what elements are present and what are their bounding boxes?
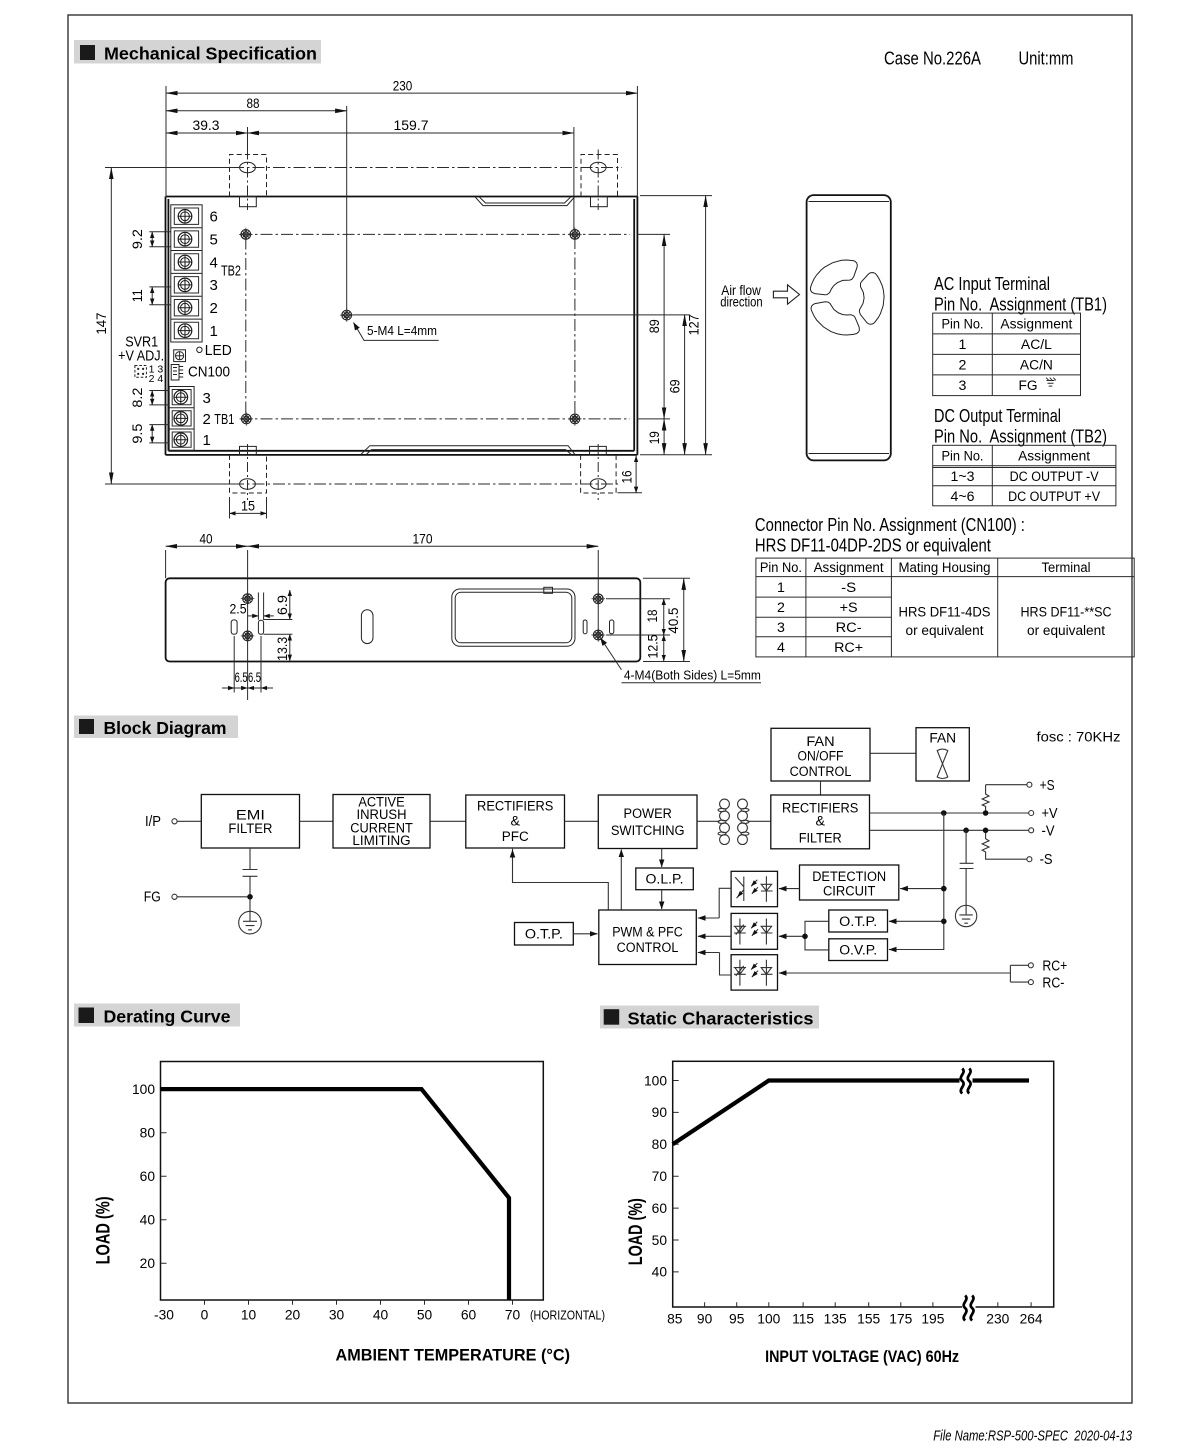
svg-text:2 4: 2 4: [149, 373, 164, 385]
svg-text:1: 1: [203, 432, 211, 449]
svg-text:230: 230: [986, 1312, 1009, 1327]
svg-text:70: 70: [505, 1308, 521, 1323]
svg-text:&: &: [510, 813, 520, 829]
svg-text:39.3: 39.3: [193, 117, 220, 133]
vent window: [452, 589, 575, 646]
svg-text:RC-: RC-: [1042, 974, 1064, 991]
section header: Static Characteristics: [600, 1006, 819, 1029]
svg-text:FAN: FAN: [929, 730, 956, 746]
5-M4 leader and label: [354, 323, 439, 341]
svg-text:DC OUTPUT -V: DC OUTPUT -V: [1010, 469, 1099, 485]
M4 hole top-right: [568, 228, 582, 242]
bracket tab top-right: [591, 197, 608, 207]
terminal block TB2: [171, 205, 202, 342]
svg-text:90: 90: [652, 1105, 668, 1120]
svg-text:159.7: 159.7: [394, 117, 429, 133]
svg-text:FILTER: FILTER: [799, 830, 842, 846]
block FAN ON/OFF CONTROL: [771, 728, 870, 781]
svg-text:fosc : 70KHz: fosc : 70KHz: [1037, 730, 1121, 746]
svg-text:170: 170: [413, 531, 433, 547]
dimension 230: [166, 92, 637, 94]
dimension 12.5: [663, 635, 665, 661]
top vent louver: [475, 197, 574, 205]
extension lines top dims: [166, 86, 637, 310]
svg-text:3: 3: [203, 390, 211, 407]
svg-text:19: 19: [646, 431, 662, 444]
svg-text:6.9: 6.9: [274, 595, 290, 615]
mounting bracket top-left (dashed): [230, 155, 267, 197]
svg-text:20: 20: [140, 1256, 156, 1271]
bracket centerline top-left: [247, 150, 249, 211]
earth ground FG: [239, 911, 262, 934]
svg-text:DC OUTPUT +V: DC OUTPUT +V: [1008, 489, 1100, 505]
terminal -S: [1027, 857, 1032, 862]
svg-text:direction: direction: [720, 295, 763, 311]
dimension 9.5: [149, 425, 169, 443]
svg-text:100: 100: [644, 1073, 667, 1088]
svg-text:AC Input Terminal: AC Input Terminal: [934, 273, 1050, 294]
TB1 screw 3: [174, 390, 188, 404]
wire fan control to rectifiers-filter: [820, 781, 822, 795]
svg-text:Unit:mm: Unit:mm: [1019, 48, 1074, 69]
junction dots output: [941, 810, 947, 816]
section header: Derating Curve: [74, 1004, 240, 1027]
svg-text:195: 195: [921, 1312, 944, 1327]
dimension 40: [166, 545, 248, 547]
wire detection to opto A: [779, 888, 800, 890]
dimension 16: [635, 456, 637, 493]
svg-text:Static Characteristics: Static Characteristics: [628, 1009, 814, 1029]
derating x ticks: [205, 1300, 513, 1305]
svg-text:Derating Curve: Derating Curve: [104, 1007, 231, 1027]
bottom view screw top-left: [241, 592, 255, 606]
dimension 11: [149, 287, 171, 305]
block PWM & PFC CONTROL: [599, 910, 697, 965]
svg-text:80: 80: [140, 1126, 156, 1141]
svg-text:AC/L: AC/L: [1021, 337, 1052, 353]
svg-text:RC+: RC+: [834, 640, 863, 656]
svg-text:CN100: CN100: [188, 363, 230, 380]
svg-text:20: 20: [285, 1308, 301, 1323]
M4 hole bottom-left: [240, 412, 254, 426]
potentiometer SVR1: [174, 350, 186, 362]
wire FG to ground junction: [177, 896, 250, 898]
mounting bracket top-right (dashed): [581, 155, 618, 197]
bracket centerline top-right: [597, 150, 599, 211]
TB1 screw 1: [174, 433, 188, 447]
svg-text:-S: -S: [841, 580, 856, 596]
svg-text:1: 1: [777, 580, 785, 596]
dimension 89: [663, 234, 665, 419]
fan impeller symbol: [937, 749, 948, 778]
bracket tab top-left: [240, 197, 257, 207]
vent latch detail: [544, 587, 553, 593]
bracket tab bottom-right: [590, 446, 607, 455]
svg-text:60: 60: [461, 1308, 477, 1323]
svg-text:2: 2: [210, 300, 218, 317]
svg-text:10: 10: [241, 1308, 257, 1323]
horizontal centerline through top brackets: [105, 167, 232, 169]
mounting bracket bottom-left (dashed): [230, 455, 267, 493]
side view: fan panel: [807, 195, 891, 460]
bracket centerline bottom-left: [247, 444, 249, 500]
svg-text:Assignment: Assignment: [1000, 317, 1072, 333]
svg-text:LOAD (%): LOAD (%): [625, 1198, 647, 1265]
bracket slot bottom-right: [590, 479, 606, 489]
svg-text:50: 50: [652, 1233, 668, 1248]
output bus -V: [870, 829, 1029, 831]
block DETECTION CIRCUIT: [800, 865, 899, 900]
terminal +S: [1027, 782, 1032, 787]
bottom vent louver: [361, 446, 575, 455]
svg-text:135: 135: [824, 1312, 847, 1327]
svg-text:100: 100: [132, 1082, 155, 1097]
svg-text:40: 40: [200, 531, 213, 547]
block FAN: [916, 728, 969, 781]
TB2 screw 5: [178, 232, 192, 246]
dimension 18: [606, 599, 670, 635]
svg-text:80: 80: [652, 1137, 668, 1152]
svg-text:Terminal: Terminal: [1042, 560, 1091, 576]
svg-text:2: 2: [777, 600, 785, 616]
block POWER SWITCHING: [598, 795, 697, 849]
svg-text:147: 147: [93, 312, 109, 334]
svg-text:RC+: RC+: [1042, 958, 1067, 975]
svg-text:+V ADJ.: +V ADJ.: [118, 348, 164, 365]
svg-text:or equivalent: or equivalent: [906, 623, 984, 639]
M4 hole bottom-right: [568, 412, 582, 426]
terminal RC+: [1028, 963, 1033, 968]
svg-text:HRS DF11-**SC: HRS DF11-**SC: [1021, 605, 1112, 621]
connector CN100 table: [756, 558, 1134, 657]
wire PWM drive to power switching: [620, 850, 622, 911]
bottom view screw bottom-left: [241, 629, 255, 643]
svg-text:O.T.P.: O.T.P.: [525, 927, 563, 943]
TB2 screw 6: [178, 210, 192, 224]
wire rectifiers to power switching: [565, 820, 599, 822]
optocoupler U2: [731, 913, 777, 949]
svg-text:Assignment: Assignment: [1018, 449, 1090, 465]
dimension 9.2: [149, 232, 171, 247]
svg-text:70: 70: [652, 1169, 668, 1184]
svg-text:6: 6: [210, 209, 218, 226]
dimension 19: [663, 419, 665, 455]
mounting bracket bottom-right (dashed): [581, 455, 617, 493]
svg-text:Pin No.: Pin No.: [760, 560, 802, 576]
resistor +S sense: [982, 785, 1027, 813]
horizontal centerline through bottom brackets: [105, 483, 232, 485]
svg-text:2.5: 2.5: [230, 601, 247, 617]
static curve line: [673, 1081, 1029, 1145]
svg-text:2: 2: [959, 358, 967, 374]
svg-text:Connector Pin No. Assignment (: Connector Pin No. Assignment (CN100) :: [755, 514, 1025, 535]
svg-text:HRS DF11-04DP-2DS or equivalen: HRS DF11-04DP-2DS or equivalent: [755, 535, 991, 556]
dimension 127: [705, 196, 707, 455]
svg-text:18: 18: [644, 609, 660, 622]
wire inrush to rectifiers: [430, 820, 466, 822]
bracket tab bottom-left: [240, 446, 257, 455]
svg-text:3: 3: [210, 277, 218, 294]
TB2 screw 3: [178, 278, 192, 292]
svg-text:Mechanical Specification: Mechanical Specification: [104, 44, 317, 64]
svg-text:LIMITING: LIMITING: [352, 833, 410, 849]
svg-text:100: 100: [757, 1312, 780, 1327]
LED indicator: [197, 347, 202, 352]
svg-text:40.5: 40.5: [665, 607, 681, 633]
earth ground output: [955, 905, 976, 926]
svg-text:1: 1: [210, 323, 218, 340]
svg-text:O.T.P.: O.T.P.: [839, 914, 877, 930]
svg-text:SWITCHING: SWITCHING: [611, 823, 685, 839]
top view: case outline: [166, 197, 638, 455]
svg-text:PWM & PFC: PWM & PFC: [612, 925, 683, 941]
svg-text:8.2: 8.2: [129, 387, 145, 407]
wire OTP to PWM: [573, 933, 597, 935]
block OTP left: [515, 923, 574, 946]
TB1 screw 2: [174, 412, 188, 426]
dimension 13.3: [289, 634, 291, 661]
fan blade cutout right: [859, 273, 884, 325]
svg-text:CONTROL: CONTROL: [790, 764, 852, 780]
dimension 159.7: [248, 132, 574, 134]
center obround slot: [361, 610, 373, 644]
TB2 screw 4: [178, 255, 192, 269]
bottom view screw bottom-right: [591, 628, 605, 642]
wire opto C to PWM: [720, 953, 732, 976]
svg-text:4-M4(Both Sides) L=5mm: 4-M4(Both Sides) L=5mm: [624, 669, 761, 683]
terminal -V: [1029, 828, 1034, 833]
wire opto B to PWM: [698, 935, 731, 937]
svg-text:3: 3: [777, 620, 785, 636]
M4 hole center: [340, 308, 354, 322]
svg-text:60: 60: [140, 1169, 156, 1184]
wire opto A to PWM: [719, 888, 731, 918]
svg-text:40: 40: [373, 1308, 389, 1323]
bottom view: case outline: [166, 578, 641, 661]
svg-text:PFC: PFC: [502, 829, 529, 845]
chassis hole centerline left vertical: [245, 238, 247, 416]
wire power switching to OLP: [661, 849, 663, 868]
svg-text:TB1: TB1: [214, 411, 234, 428]
svg-text:&: &: [815, 814, 825, 830]
dimension 6.9: [289, 590, 291, 620]
block OVP: [829, 939, 888, 961]
svg-text:FILTER: FILTER: [228, 821, 272, 837]
dimension 15: [230, 512, 267, 514]
air flow arrow: [773, 285, 799, 304]
svg-text:RECTIFIERS: RECTIFIERS: [477, 798, 553, 814]
svg-text:88: 88: [247, 95, 260, 111]
svg-text:ON/OFF: ON/OFF: [798, 749, 844, 765]
bracket slot bottom-left: [240, 479, 256, 489]
section header: Mechanical Specification: [74, 40, 321, 64]
svg-text:3: 3: [959, 378, 967, 394]
terminal block TB1: [169, 387, 194, 451]
junction FG node: [247, 894, 253, 900]
resistor -S sense: [982, 830, 1027, 859]
derating y ticks: [161, 1089, 167, 1263]
svg-text:4: 4: [210, 254, 218, 271]
svg-text:Pin No. Assignment (TB2): Pin No. Assignment (TB2): [934, 426, 1107, 447]
svg-text:O.L.P.: O.L.P.: [646, 872, 684, 888]
svg-text:40: 40: [652, 1265, 668, 1280]
svg-text:1: 1: [959, 337, 967, 353]
TB2 screw 2: [178, 301, 192, 315]
FG earth symbol: [1046, 378, 1056, 386]
wire OVP feed arrow: [889, 949, 895, 951]
svg-text:6.5: 6.5: [248, 669, 261, 685]
svg-text:1~3: 1~3: [951, 469, 975, 485]
svg-text:or equivalent: or equivalent: [1027, 623, 1105, 639]
svg-text:Case No.226A: Case No.226A: [884, 48, 982, 69]
block RECTIFIERS & PFC: [466, 795, 565, 848]
axis break on curve: [960, 1067, 973, 1094]
svg-text:2: 2: [203, 411, 211, 428]
wire I/P to EMI: [177, 820, 201, 822]
svg-text:5: 5: [210, 231, 218, 248]
derating y axis title: [93, 1196, 115, 1264]
4-M4 label and leader: [601, 638, 622, 670]
svg-text:CONTROL: CONTROL: [617, 940, 679, 956]
svg-text:69: 69: [667, 379, 683, 393]
derating curve plot box: [161, 1062, 544, 1301]
svg-text:FG: FG: [1019, 378, 1038, 394]
CN100 connector: [171, 365, 183, 381]
wire RC feed to opto C: [779, 972, 1011, 974]
bracket centerline bottom-right: [597, 444, 599, 500]
svg-text:CIRCUIT: CIRCUIT: [823, 883, 876, 899]
svg-text:Pin No. Assignment (TB1): Pin No. Assignment (TB1): [934, 294, 1107, 315]
transformer T1: [718, 799, 749, 844]
bottom view screw top-right: [591, 592, 605, 606]
wire PFC feedback: [513, 849, 609, 910]
svg-text:9.5: 9.5: [129, 423, 145, 443]
svg-text:TB2: TB2: [221, 263, 241, 280]
svg-text:13.3: 13.3: [274, 637, 290, 661]
wire detection feed: [900, 888, 944, 890]
side slots left pair: [231, 620, 237, 634]
svg-text:POWER: POWER: [624, 806, 672, 822]
DC output terminal table TB2: [933, 445, 1116, 506]
svg-text:90: 90: [697, 1312, 713, 1327]
svg-text:4: 4: [777, 640, 785, 656]
svg-text:264: 264: [1020, 1312, 1043, 1327]
wire fan control to fan: [870, 752, 916, 754]
chassis hole centerline right vertical: [574, 237, 576, 422]
sense bus vertical: [894, 813, 944, 950]
block OLP: [636, 868, 694, 890]
wire OTP/OVP to opto B: [805, 921, 829, 950]
TB2 screw 1: [178, 324, 192, 338]
svg-text:(HORIZONTAL): (HORIZONTAL): [530, 1309, 605, 1323]
svg-text:I/P: I/P: [145, 813, 161, 830]
svg-text:5-M4 L=4mm: 5-M4 L=4mm: [367, 324, 437, 338]
svg-text:+V: +V: [1042, 805, 1058, 822]
svg-text:11: 11: [129, 289, 145, 302]
svg-text:-V: -V: [1042, 822, 1055, 839]
static characteristics plot box: [673, 1061, 1054, 1307]
svg-text:175: 175: [889, 1312, 912, 1327]
svg-text:50: 50: [417, 1308, 433, 1323]
svg-text:FG: FG: [144, 889, 161, 906]
derating curve line: [161, 1089, 510, 1300]
bracket slot top-left: [240, 162, 256, 172]
svg-text:Block Diagram: Block Diagram: [104, 718, 227, 738]
output bus +V: [870, 812, 1029, 814]
dimension 170: [248, 545, 599, 547]
terminal +V: [1029, 811, 1034, 816]
bracket slot top-right: [590, 162, 606, 172]
axis break on x axis: [962, 1295, 976, 1321]
svg-text:INPUT VOLTAGE (VAC) 60Hz: INPUT VOLTAGE (VAC) 60Hz: [765, 1348, 959, 1366]
svg-text:Mating Housing: Mating Housing: [899, 560, 991, 576]
block EMI FILTER: [201, 795, 299, 849]
svg-text:0: 0: [201, 1308, 209, 1323]
optocoupler U3: [731, 955, 777, 990]
svg-text:16: 16: [618, 470, 634, 483]
svg-text:AC/N: AC/N: [1020, 358, 1053, 374]
static y axis title: [625, 1198, 647, 1265]
block RECTIFIERS & FILTER: [771, 795, 870, 849]
AC input terminal table TB1: [933, 313, 1081, 396]
M4 hole top-left: [239, 228, 253, 242]
svg-text:HRS DF11-4DS: HRS DF11-4DS: [899, 605, 991, 621]
chassis hole centerline upper: [240, 233, 630, 235]
svg-text:115: 115: [792, 1312, 814, 1327]
svg-text:+S: +S: [840, 600, 858, 616]
svg-text:+S: +S: [1040, 777, 1055, 794]
fan blade cutout bottom: [811, 302, 859, 335]
capacitor CY EMI to FG: [243, 848, 258, 911]
side slots right pair: [583, 620, 587, 634]
svg-text:LOAD (%): LOAD (%): [93, 1196, 115, 1264]
svg-text:95: 95: [729, 1312, 745, 1327]
svg-text:RC-: RC-: [836, 620, 862, 636]
svg-text:6.5: 6.5: [235, 669, 248, 685]
svg-text:File Name:RSP-500-SPEC 2020-0: File Name:RSP-500-SPEC 2020-04-13: [933, 1429, 1132, 1445]
block ACTIVE INRUSH CURRENT LIMITING: [333, 795, 430, 849]
wire power switching to transformer: [697, 820, 720, 822]
section header: Block Diagram: [74, 716, 238, 739]
output capacitor: [960, 830, 974, 905]
svg-text:Pin No.: Pin No.: [942, 449, 984, 465]
svg-text:O.V.P.: O.V.P.: [839, 943, 877, 959]
dimension 40.5: [643, 578, 690, 661]
svg-text:LED: LED: [205, 342, 232, 359]
RC terminal bracket: [1010, 965, 1028, 982]
svg-text:40: 40: [140, 1213, 156, 1228]
CN100 pin diagram (dashed): [135, 366, 147, 378]
terminal RC-: [1028, 980, 1033, 985]
wire OLP to PWM: [661, 890, 663, 909]
wire OTP right feed: [889, 920, 944, 922]
svg-text:4~6: 4~6: [951, 489, 975, 505]
wire transformer to rectifiers-filter: [747, 820, 770, 822]
svg-text:30: 30: [329, 1308, 345, 1323]
block OTP right: [829, 910, 888, 932]
static x ticks: [705, 1302, 1032, 1307]
dimension 69: [684, 314, 686, 454]
svg-text:127: 127: [685, 314, 701, 335]
svg-text:-S: -S: [1040, 851, 1053, 868]
svg-text:AMBIENT TEMPERATURE (°C): AMBIENT TEMPERATURE (°C): [336, 1347, 571, 1365]
dimension 147: [110, 168, 112, 485]
bottom view centerlines: [166, 550, 599, 700]
svg-text:DC Output Terminal: DC Output Terminal: [934, 405, 1061, 426]
svg-text:-30: -30: [154, 1308, 174, 1323]
svg-text:155: 155: [857, 1312, 880, 1327]
svg-text:Assignment: Assignment: [814, 560, 884, 576]
